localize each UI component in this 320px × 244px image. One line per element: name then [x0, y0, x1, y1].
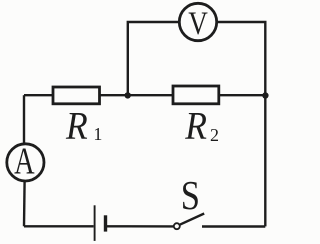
svg-text:R: R [184, 104, 207, 147]
svg-text:1: 1 [93, 124, 102, 144]
svg-text:V: V [188, 6, 208, 42]
svg-text:S: S [181, 172, 200, 218]
svg-text:2: 2 [210, 125, 219, 145]
svg-text:A: A [14, 140, 35, 182]
svg-text:R: R [65, 104, 88, 147]
